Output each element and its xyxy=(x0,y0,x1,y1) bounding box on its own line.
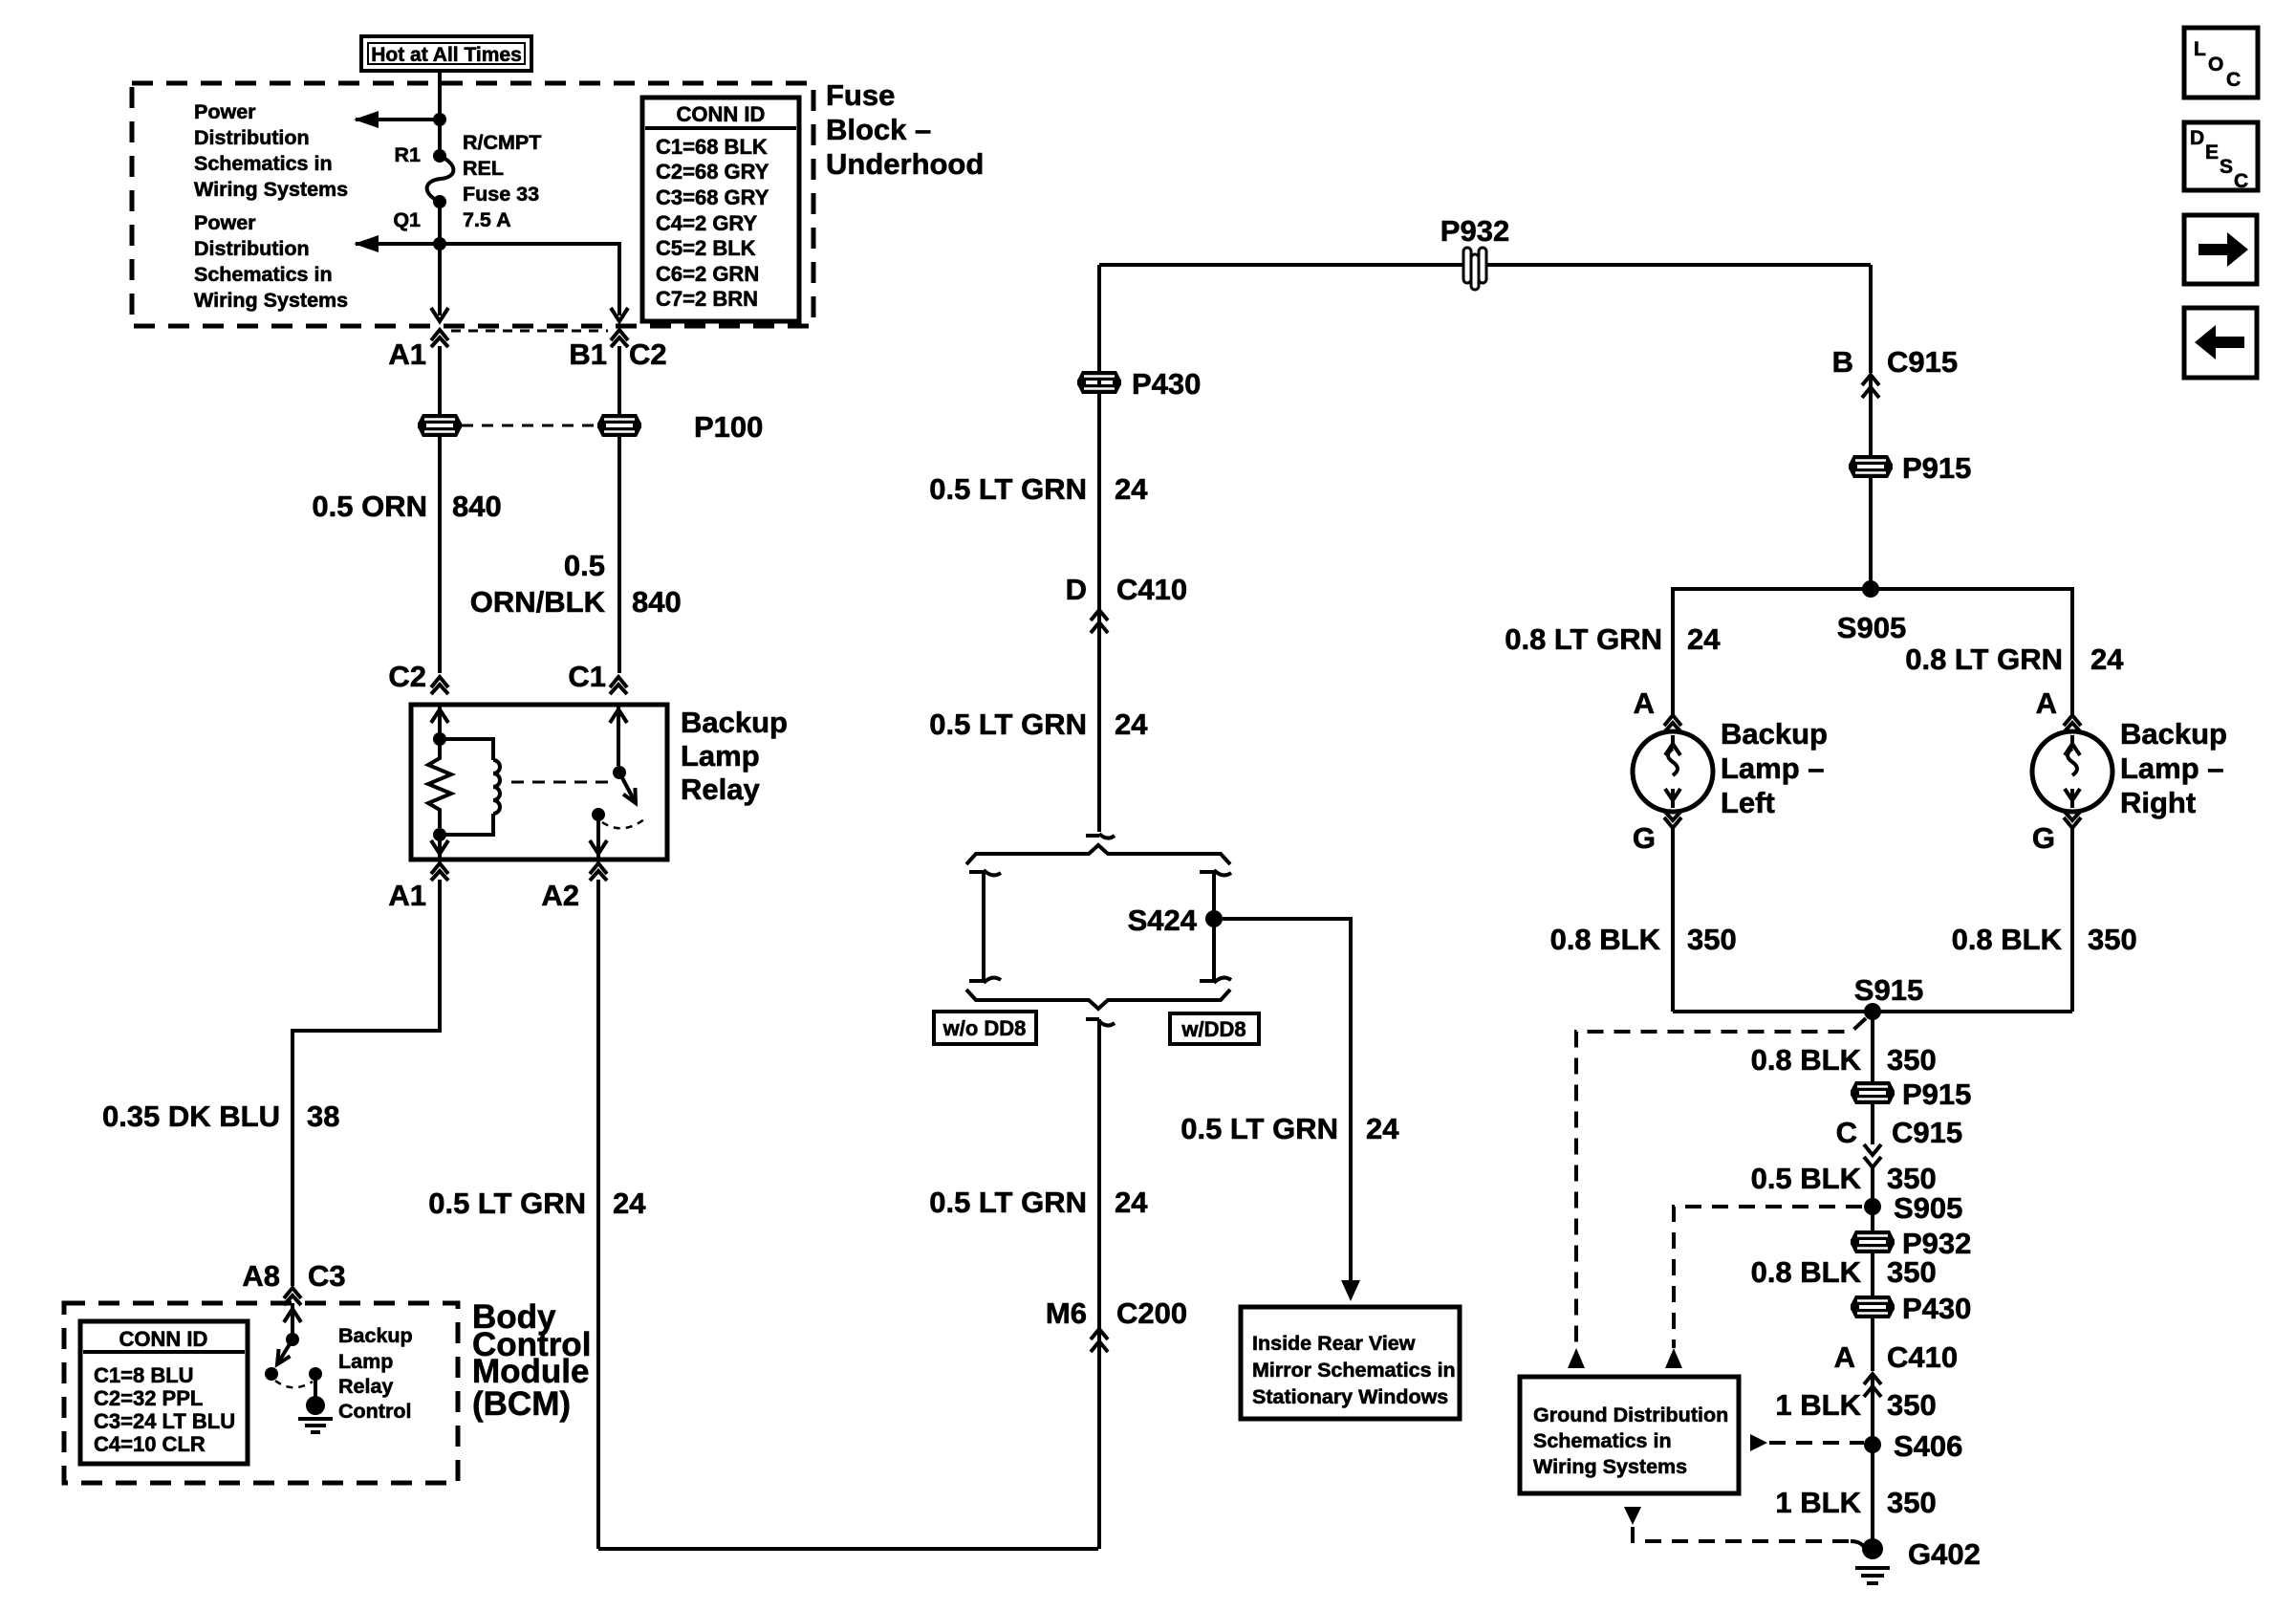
grommet P932 (ground chain) xyxy=(1851,1230,1895,1253)
svg-text:0.8 BLK: 0.8 BLK xyxy=(1550,923,1661,956)
svg-text:CONN ID: CONN ID xyxy=(119,1327,208,1351)
wire P915 to C915 xyxy=(1871,1104,1874,1144)
switch arm with arrowhead xyxy=(619,773,636,803)
connector fork below relay A2 xyxy=(590,863,607,881)
svg-text:Backup: Backup xyxy=(681,706,788,739)
filled arrowhead down to reference box xyxy=(1341,1280,1360,1301)
grommet P915 (ground chain) xyxy=(1851,1081,1895,1104)
splice S915 junction wire xyxy=(1673,1010,2072,1013)
svg-text:Lamp: Lamp xyxy=(338,1350,393,1373)
svg-text:S905: S905 xyxy=(1894,1191,1962,1225)
svg-text:R1: R1 xyxy=(395,143,422,166)
dashed reference to S406 xyxy=(1769,1441,1864,1445)
wire B1 fork to P100 xyxy=(617,346,621,414)
switch contact dot (A2) xyxy=(592,808,605,821)
svg-text:Power: Power xyxy=(194,211,256,234)
reference box: Inside Rear View Mirror Schematics in Stationary Windows xyxy=(1241,1307,1460,1419)
relay switch common pin C1 internal wire xyxy=(617,705,620,766)
svg-text:Wiring Systems: Wiring Systems xyxy=(194,289,348,312)
connector fork at relay C2 xyxy=(431,677,448,694)
relay coil pin C2 internal wire xyxy=(438,705,442,739)
BCM driver internal wire from A8 xyxy=(291,1303,294,1339)
wire 0.35 DK BLU 38 from relay A1 to BCM A8 xyxy=(292,880,440,1286)
svg-text:Relay: Relay xyxy=(338,1375,393,1398)
svg-text:G: G xyxy=(2032,821,2055,855)
svg-text:A1: A1 xyxy=(388,337,426,371)
driver switch top dot xyxy=(286,1333,299,1346)
dashed actuation line coil to switch xyxy=(511,781,612,784)
wire from Hot at All Times down to fuse xyxy=(438,71,442,156)
svg-text:24: 24 xyxy=(1115,1186,1148,1219)
CONN ID table (BCM) xyxy=(80,1321,248,1464)
grommet P430 (ground chain) xyxy=(1851,1295,1895,1318)
svg-text:Distribution: Distribution xyxy=(194,126,310,149)
connector C2 fork at B1 xyxy=(611,330,628,347)
svg-text:840: 840 xyxy=(452,490,502,523)
junction dot at lower branch xyxy=(433,237,446,250)
svg-text:Inside Rear View: Inside Rear View xyxy=(1252,1332,1416,1355)
svg-text:O: O xyxy=(2208,54,2223,76)
svg-text:ORN/BLK: ORN/BLK xyxy=(470,585,606,619)
connector C3 fork at BCM A8 xyxy=(284,1288,301,1305)
ground G402 xyxy=(1855,1538,1890,1583)
svg-text:M6: M6 xyxy=(1046,1296,1087,1330)
grommet P100 (left) xyxy=(418,414,462,437)
wire P932 to P430 xyxy=(1871,1253,1874,1295)
svg-text:G402: G402 xyxy=(1908,1537,1981,1571)
label Backup Lamp Relay Control xyxy=(338,1324,413,1423)
label Backup Lamp - Left xyxy=(1721,717,1828,819)
branch wire to left backup lamp xyxy=(1673,589,1871,714)
svg-text:C915: C915 xyxy=(1887,345,1958,379)
wire 0.5 LT GRN 24 from relay A2 down xyxy=(596,880,600,1549)
svg-text:P430: P430 xyxy=(1902,1292,1971,1325)
internal down arrowhead at A2 pin xyxy=(590,840,607,854)
reference arrowhead up (left) xyxy=(1568,1348,1585,1368)
driver switch contact dot (left) xyxy=(265,1367,278,1381)
backup lamp right (bulb) xyxy=(2032,731,2112,812)
wire P430 to C410 xyxy=(1871,1318,1874,1371)
switch pivot dot xyxy=(613,766,626,779)
svg-text:Block –: Block – xyxy=(826,113,931,146)
svg-text:0.8 BLK: 0.8 BLK xyxy=(1751,1255,1862,1289)
internal up arrowhead at C1 pin xyxy=(610,709,627,723)
svg-text:C3=68 GRY: C3=68 GRY xyxy=(656,185,769,209)
svg-text:P915: P915 xyxy=(1902,451,1971,485)
svg-text:350: 350 xyxy=(2088,923,2137,956)
wire S915 down to P915 xyxy=(1871,1012,1874,1081)
svg-text:A8: A8 xyxy=(242,1259,280,1293)
dashed reference from S915 xyxy=(1576,1018,1866,1348)
grommet P932 (top rail, vertical) xyxy=(1463,248,1486,290)
svg-text:P915: P915 xyxy=(1902,1078,1971,1111)
reference arrowhead right (S406 link) xyxy=(1750,1434,1767,1451)
svg-text:Hot at All Times: Hot at All Times xyxy=(371,44,522,66)
option bracket left (w/o DD8) xyxy=(969,870,1001,983)
connector fork at left lamp G xyxy=(1664,811,1681,828)
svg-text:7.5 A: 7.5 A xyxy=(463,208,511,231)
svg-text:0.8 BLK: 0.8 BLK xyxy=(1751,1043,1862,1077)
grommet P100 (right) xyxy=(597,414,641,437)
wire S905 to P932 xyxy=(1871,1207,1874,1230)
svg-text:0.8 BLK: 0.8 BLK xyxy=(1952,923,2063,956)
svg-text:350: 350 xyxy=(1687,923,1737,956)
relay coil L1 xyxy=(440,739,500,835)
fuse R/CMPT REL Fuse 33 7.5A xyxy=(427,149,454,208)
backup lamp left (bulb) xyxy=(1633,731,1713,812)
svg-text:C2=68 GRY: C2=68 GRY xyxy=(656,160,769,184)
driver switch arm with arrowhead xyxy=(277,1339,292,1364)
icon arrow left xyxy=(2184,308,2257,378)
svg-text:1 BLK: 1 BLK xyxy=(1775,1486,1861,1519)
svg-text:Right: Right xyxy=(2120,786,2196,819)
switch travel dashed arc xyxy=(602,819,644,828)
wire 0.5 ORN 840 down to relay C2 xyxy=(438,437,442,673)
svg-text:A: A xyxy=(1634,686,1655,720)
svg-text:Lamp –: Lamp – xyxy=(1721,751,1825,785)
svg-text:C3=24 LT BLU: C3=24 LT BLU xyxy=(94,1409,235,1433)
svg-text:350: 350 xyxy=(1887,1162,1937,1195)
svg-text:B: B xyxy=(1832,345,1853,379)
svg-text:Lamp: Lamp xyxy=(681,739,760,773)
svg-text:Schematics in: Schematics in xyxy=(194,152,333,175)
wire A1 fork to P100 xyxy=(438,346,442,414)
wire S406 to G402 xyxy=(1871,1445,1874,1549)
svg-text:S: S xyxy=(2220,156,2233,178)
svg-text:Underhood: Underhood xyxy=(826,147,984,181)
svg-text:0.35 DK BLU: 0.35 DK BLU xyxy=(102,1099,280,1133)
svg-text:L: L xyxy=(2194,38,2206,60)
svg-text:C3: C3 xyxy=(308,1259,346,1293)
wire break squiggle above harness brace xyxy=(1086,834,1115,838)
in-line connector chevrons C200 xyxy=(1091,1329,1108,1352)
svg-text:A: A xyxy=(1834,1340,1855,1374)
svg-text:R/CMPT: R/CMPT xyxy=(463,131,541,154)
svg-text:C410: C410 xyxy=(1116,573,1187,606)
icon DESC xyxy=(2184,122,2258,192)
svg-text:Relay: Relay xyxy=(681,773,760,806)
coil bottom junction dot xyxy=(433,828,446,841)
svg-text:0.5 BLK: 0.5 BLK xyxy=(1751,1162,1862,1195)
dashed line between P100 grommets xyxy=(462,425,597,427)
svg-text:A: A xyxy=(2036,686,2057,720)
svg-text:Schematics in: Schematics in xyxy=(1533,1429,1672,1452)
dashed reference from S905 xyxy=(1674,1207,1862,1348)
svg-text:CONN ID: CONN ID xyxy=(677,102,766,126)
dashed connector line C2 between forks xyxy=(451,330,608,333)
svg-text:S406: S406 xyxy=(1894,1429,1962,1463)
svg-text:350: 350 xyxy=(1887,1486,1937,1519)
svg-text:P100: P100 xyxy=(694,410,763,444)
svg-text:C6=2 GRN: C6=2 GRN xyxy=(656,262,759,286)
Fuse Block - Underhood dashed enclosure xyxy=(132,83,813,326)
svg-text:0.5 LT GRN: 0.5 LT GRN xyxy=(929,472,1087,506)
svg-text:C7=2 BRN: C7=2 BRN xyxy=(656,287,758,311)
svg-text:840: 840 xyxy=(632,585,682,619)
BCM dashed enclosure xyxy=(64,1303,458,1483)
splice S915 dot xyxy=(1864,1003,1881,1020)
wire P915 to splice S905 xyxy=(1869,478,1873,589)
svg-text:C1=8 BLU: C1=8 BLU xyxy=(94,1363,194,1387)
dashed reference to G402 xyxy=(1633,1527,1851,1541)
svg-text:0.8 LT GRN: 0.8 LT GRN xyxy=(1505,622,1662,656)
connector fork at relay C1 xyxy=(610,677,627,694)
svg-text:0.5 LT GRN: 0.5 LT GRN xyxy=(428,1186,586,1220)
svg-text:Schematics in: Schematics in xyxy=(194,263,333,286)
svg-text:(BCM): (BCM) xyxy=(472,1385,571,1423)
svg-text:REL: REL xyxy=(463,157,504,180)
svg-text:Backup: Backup xyxy=(1721,717,1828,751)
svg-text:1 BLK: 1 BLK xyxy=(1775,1388,1861,1422)
arrowhead left (lower power distribution) xyxy=(354,235,379,252)
icon arrow right xyxy=(2184,215,2257,284)
svg-text:C2: C2 xyxy=(629,337,667,371)
svg-text:P932: P932 xyxy=(1440,214,1509,248)
svg-text:Power: Power xyxy=(194,100,256,123)
branch wire to right backup lamp xyxy=(1871,589,2072,714)
svg-text:C1=68 BLK: C1=68 BLK xyxy=(656,135,768,159)
note: Power Distribution Schematics in Wiring Systems (top) xyxy=(194,100,348,201)
svg-text:S915: S915 xyxy=(1854,973,1923,1007)
svg-text:E: E xyxy=(2205,142,2219,163)
in-line connector chevrons C410 xyxy=(1091,610,1108,633)
svg-text:350: 350 xyxy=(1887,1043,1937,1077)
reference box: Ground Distribution Schematics in Wiring Systems xyxy=(1520,1377,1739,1493)
svg-text:0.8 LT GRN: 0.8 LT GRN xyxy=(1905,642,2063,676)
wire contact to internal ground xyxy=(314,1374,317,1398)
wire from S424 to inside rear view mirror reference xyxy=(1223,919,1351,1291)
wire C410 to S406 xyxy=(1871,1374,1874,1445)
svg-text:C: C xyxy=(1836,1116,1857,1149)
in-line connector chevrons C410 (up) xyxy=(1864,1374,1881,1397)
svg-text:A1: A1 xyxy=(388,879,426,912)
svg-text:C2: C2 xyxy=(388,660,426,693)
splice S905 dot (ground chain) xyxy=(1864,1198,1881,1215)
svg-text:Fuse: Fuse xyxy=(826,78,895,112)
in-line connector chevrons C915 (top) xyxy=(1862,375,1879,398)
wire C915 to P915 xyxy=(1869,375,1873,455)
label Body Control Module (BCM) xyxy=(472,1298,591,1423)
svg-text:A2: A2 xyxy=(541,879,579,912)
connector fork at right lamp A xyxy=(2064,715,2081,732)
svg-text:C4=10 CLR: C4=10 CLR xyxy=(94,1432,206,1456)
long wire along bottom to C200 xyxy=(598,1547,1098,1551)
svg-text:B1: B1 xyxy=(569,337,607,371)
internal up arrowhead at C2 pin xyxy=(431,709,448,723)
svg-text:C1: C1 xyxy=(568,660,606,693)
wire coil bottom to relay A1 pin xyxy=(438,835,442,858)
svg-text:0.5 LT GRN: 0.5 LT GRN xyxy=(1180,1112,1338,1145)
svg-text:0.5 LT GRN: 0.5 LT GRN xyxy=(929,1186,1087,1219)
svg-text:Wiring Systems: Wiring Systems xyxy=(1533,1455,1687,1478)
driver switch contact dot (right) xyxy=(309,1367,322,1381)
option tag box w/DD8 xyxy=(1170,1013,1259,1044)
wire to power distribution arrow (upper) xyxy=(356,118,440,121)
internal up arrowhead at A8 pin xyxy=(284,1309,301,1322)
svg-text:24: 24 xyxy=(1115,708,1148,741)
relay U1 box xyxy=(411,705,667,860)
wire down from brace to C200 and bottom rail xyxy=(1097,1033,1101,1549)
svg-text:D: D xyxy=(1066,573,1087,606)
wire 0.5 ORN/BLK 840 down to relay C1 xyxy=(617,437,621,673)
option tag box w/o DD8 xyxy=(934,1012,1036,1044)
svg-text:Distribution: Distribution xyxy=(194,237,310,260)
svg-text:24: 24 xyxy=(1115,472,1148,506)
svg-text:24: 24 xyxy=(1687,622,1721,656)
label Fuse Block - Underhood xyxy=(826,78,984,181)
svg-text:24: 24 xyxy=(2090,642,2124,676)
svg-text:D: D xyxy=(2190,127,2204,149)
splice S406 dot xyxy=(1864,1436,1881,1453)
svg-text:w/o DD8: w/o DD8 xyxy=(942,1016,1027,1040)
svg-text:24: 24 xyxy=(1366,1112,1399,1145)
note: Power Distribution Schematics in Wiring Systems (bottom) xyxy=(194,211,348,312)
wire C915 to S905 xyxy=(1871,1167,1874,1207)
connector fork at right lamp G xyxy=(2064,811,2081,828)
splice S905 dot (lamp feed) xyxy=(1862,580,1879,598)
open arrowhead A1 exits fuse box xyxy=(431,308,448,321)
svg-text:C5=2 BLK: C5=2 BLK xyxy=(656,236,756,260)
wire up from S424 brace to top rail xyxy=(1097,265,1101,832)
coil top junction dot xyxy=(433,732,446,746)
connector fork below relay A1 xyxy=(431,863,448,881)
right lamp ground wire down to S915 xyxy=(2070,828,2074,1012)
reference arrowhead up (right) xyxy=(1665,1348,1682,1368)
open arrowhead B1 exits fuse box xyxy=(611,308,628,321)
svg-text:350: 350 xyxy=(1887,1388,1937,1422)
svg-text:0.5: 0.5 xyxy=(564,549,605,582)
fuse value label R/CMPT REL Fuse 33 7.5 A xyxy=(463,131,541,231)
junction dot above fuse xyxy=(433,113,446,126)
svg-text:C200: C200 xyxy=(1116,1296,1187,1330)
svg-text:350: 350 xyxy=(1887,1255,1937,1289)
svg-text:38: 38 xyxy=(307,1099,339,1133)
svg-text:C410: C410 xyxy=(1887,1340,1958,1374)
svg-text:C915: C915 xyxy=(1892,1116,1962,1149)
connector fork at left lamp A xyxy=(1664,715,1681,732)
svg-text:Backup: Backup xyxy=(2120,717,2227,751)
grommet P915 (top) xyxy=(1849,455,1893,478)
harness brace (top) xyxy=(966,845,1230,864)
in-line connector chevrons C915 (down) xyxy=(1864,1144,1881,1167)
relay resistor (parallel with coil) xyxy=(428,739,451,828)
left lamp ground wire down to S915 xyxy=(1671,828,1675,1012)
arrowhead left (upper power distribution) xyxy=(354,111,379,128)
grommet P430 (middle column) xyxy=(1077,371,1121,394)
svg-text:S905: S905 xyxy=(1837,611,1906,644)
wire down from top rail to C915 xyxy=(1869,265,1873,373)
label Backup Lamp Relay xyxy=(681,706,788,806)
svg-text:Left: Left xyxy=(1721,786,1775,819)
svg-text:Backup: Backup xyxy=(338,1324,413,1347)
wire A1 down inside fuse box xyxy=(438,244,442,316)
wire fuse to lower junction xyxy=(438,202,442,244)
svg-text:0.5 ORN: 0.5 ORN xyxy=(312,490,427,523)
internal down arrowhead at A1 pin xyxy=(431,840,448,854)
svg-text:Fuse 33: Fuse 33 xyxy=(463,183,539,206)
svg-text:Q1: Q1 xyxy=(393,208,421,231)
reference arrowhead down (G402 link) xyxy=(1624,1507,1641,1525)
CONN ID table (fuse block) xyxy=(642,98,799,321)
svg-text:24: 24 xyxy=(613,1186,646,1220)
svg-text:Wiring Systems: Wiring Systems xyxy=(194,178,348,201)
svg-text:S424: S424 xyxy=(1128,903,1198,937)
label box "Hot at All Times" xyxy=(361,36,531,71)
svg-text:P430: P430 xyxy=(1132,367,1201,401)
label Backup Lamp - Right xyxy=(2120,717,2227,819)
svg-text:w/DD8: w/DD8 xyxy=(1180,1017,1245,1041)
svg-text:C: C xyxy=(2226,69,2241,91)
wire break squiggle below harness brace xyxy=(1086,1019,1115,1033)
wire label 0.5 ORN/BLK xyxy=(470,549,606,619)
splice S424 dot xyxy=(1205,910,1223,927)
option branch right (w/DD8) wire xyxy=(1200,870,1231,983)
svg-text:Control: Control xyxy=(338,1400,411,1423)
svg-text:C2=32 PPL: C2=32 PPL xyxy=(94,1386,203,1410)
svg-text:C4=2 GRY: C4=2 GRY xyxy=(656,211,758,235)
svg-text:Lamp –: Lamp – xyxy=(2120,751,2224,785)
harness brace (bottom) xyxy=(966,990,1230,1009)
top rail wire over to right column xyxy=(1099,263,1871,267)
svg-text:0.5 LT GRN: 0.5 LT GRN xyxy=(929,708,1087,741)
svg-text:C: C xyxy=(2234,170,2248,192)
icon LOC xyxy=(2184,28,2258,98)
internal ground symbol xyxy=(298,1396,333,1432)
svg-text:Mirror Schematics in: Mirror Schematics in xyxy=(1252,1359,1456,1382)
svg-text:G: G xyxy=(1633,821,1656,855)
wire contact to relay A2 pin xyxy=(596,815,600,858)
connector C2 fork at A1 xyxy=(431,330,448,347)
wire to power distribution arrow (lower) and over to B1 xyxy=(356,244,619,316)
driver switch travel dashed arc xyxy=(275,1381,313,1387)
svg-text:Ground Distribution: Ground Distribution xyxy=(1533,1404,1728,1426)
svg-text:Stationary Windows: Stationary Windows xyxy=(1252,1385,1448,1408)
